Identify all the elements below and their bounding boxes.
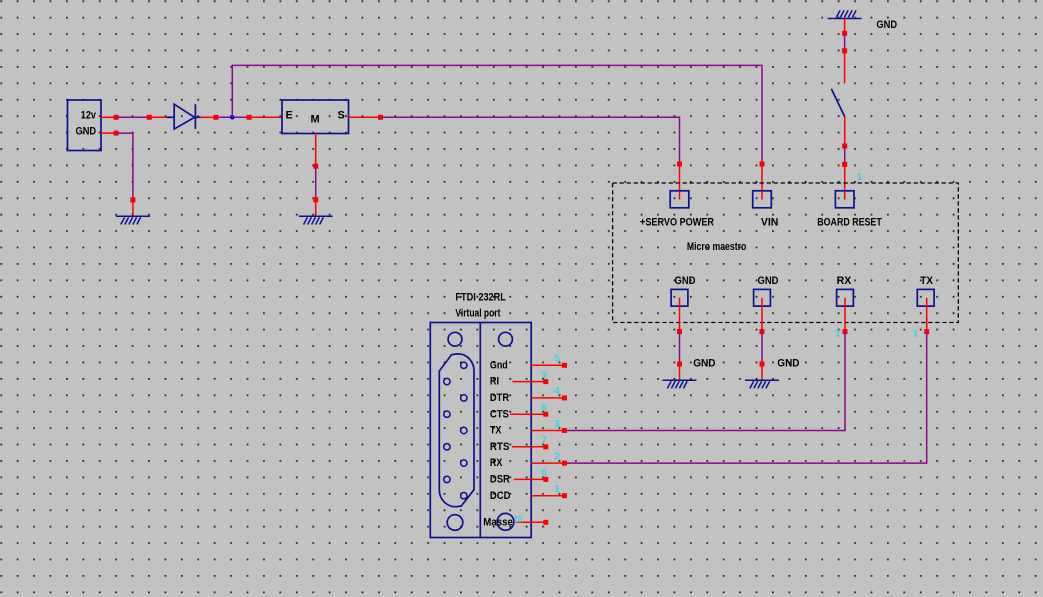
wire GND1 red lower [679, 364, 681, 380]
junction pad [842, 162, 847, 167]
wire maestro TX to FTDI RX purple [565, 332, 927, 464]
wire into BOARD RESET terminal red [844, 164, 846, 199]
junction pad [313, 164, 318, 169]
svg-text:1: 1 [835, 327, 841, 339]
junction pad [543, 520, 548, 525]
ground maestro 2 [745, 380, 779, 388]
wire reset ground red [844, 19, 846, 34]
svg-text:5: 5 [554, 353, 560, 365]
junction pad [213, 115, 218, 120]
svg-text:GND: GND [758, 275, 779, 287]
diode D1 [167, 104, 201, 129]
svg-text:RTS: RTS [490, 441, 510, 453]
wire pin RTS red [512, 446, 546, 448]
wire GND2 purple [761, 332, 763, 364]
wire GND2 red lower [761, 364, 763, 380]
svg-text:GND: GND [876, 19, 897, 31]
svg-text:4: 4 [554, 385, 560, 397]
wire purple [844, 146, 846, 164]
wire 12v GND red lower [132, 200, 134, 216]
svg-text:BOARD RESET: BOARD RESET [817, 216, 882, 228]
regulator U1 E M S box [282, 100, 349, 134]
wire 12v output segment purple [116, 116, 149, 118]
svg-text:Virtual port: Virtual port [455, 308, 500, 320]
junction pad [924, 329, 929, 334]
junction pad [843, 329, 848, 334]
wire pin CTS red [510, 413, 546, 415]
svg-text:E: E [286, 110, 293, 122]
junction pad [543, 444, 548, 449]
wire reset purple [844, 33, 846, 51]
wire 12v GND purple elbow [116, 133, 133, 200]
svg-text:1: 1 [912, 327, 918, 339]
junction pad [543, 379, 548, 384]
terminal GND 1 [671, 289, 688, 306]
svg-text:10: 10 [514, 514, 522, 526]
svg-text:3: 3 [554, 418, 560, 430]
battery 12v source box [68, 100, 102, 151]
wire M ground red lower [315, 200, 317, 217]
svg-text:Micro maestro: Micro maestro [687, 241, 747, 253]
svg-text:GND: GND [675, 275, 696, 287]
junction pad [114, 131, 119, 136]
svg-text:DSR: DSR [490, 474, 510, 486]
junction pad [130, 197, 135, 202]
junction pad [562, 493, 567, 498]
ground maestro 1 [663, 380, 697, 388]
terminal TX [917, 289, 934, 306]
wire reset red to switch [844, 51, 846, 84]
wire pin DSR red [514, 478, 546, 480]
wire pin Masse red [514, 521, 546, 523]
junction pad [677, 329, 682, 334]
wire 12v output segment red [101, 116, 116, 118]
svg-text:12v: 12v [81, 110, 97, 122]
wire GND2 red [761, 298, 763, 332]
wire maestro TX red [926, 298, 928, 332]
junction pad [378, 115, 383, 120]
svg-text:7: 7 [541, 434, 547, 446]
svg-text:Masse: Masse [483, 516, 513, 528]
junction pad [842, 144, 847, 149]
svg-text:CTS: CTS [490, 408, 509, 420]
connector DB9 body [430, 323, 531, 538]
ground regulator M [299, 216, 333, 224]
junction pad [147, 115, 152, 120]
svg-text:2: 2 [554, 450, 560, 462]
wire M ground purple [315, 166, 317, 200]
wire GND1 red [679, 298, 681, 332]
junction pad [760, 362, 765, 367]
ground 12v [116, 216, 150, 224]
svg-text:DCD: DCD [490, 490, 511, 502]
module Micro maestro dashed outline [613, 183, 959, 323]
terminal RX [837, 289, 854, 306]
junction pad [313, 197, 318, 202]
svg-text:6: 6 [541, 467, 547, 479]
svg-text:+SERVO POWER: +SERVO POWER [640, 216, 714, 228]
wire pin Gnd red [531, 364, 564, 366]
svg-text:Gnd: Gnd [490, 359, 508, 371]
wire to regulator E input red [249, 116, 282, 118]
svg-text:DTR: DTR [490, 392, 509, 404]
wire switch to pad red [844, 117, 846, 146]
svg-text:1: 1 [554, 483, 560, 495]
junction pad [543, 477, 548, 482]
svg-text:1: 1 [857, 171, 863, 183]
svg-text:FTDI 232RL: FTDI 232RL [455, 291, 506, 303]
wire S output red [349, 116, 381, 118]
junction pad [562, 428, 567, 433]
wire junction purple segment [216, 116, 249, 118]
wire GND1 purple [679, 332, 681, 364]
junction pad [543, 412, 548, 417]
connector DB9 holes [444, 362, 467, 499]
svg-text:TX: TX [920, 275, 933, 287]
svg-text:GND: GND [693, 358, 715, 370]
terminal VIN [753, 191, 772, 208]
wire net VIN riser purple [232, 65, 762, 164]
wire pin DTR red [531, 397, 564, 399]
junction pad [677, 162, 682, 167]
junction pad [760, 329, 765, 334]
terminal +SERVO POWER [670, 191, 689, 208]
switch SW1 [831, 89, 844, 117]
ground top right inverted [828, 10, 862, 18]
svg-text:RX: RX [837, 275, 852, 287]
wire diode cathode to junction red [201, 116, 216, 118]
wire maestro RX red [844, 298, 846, 332]
wire pin RI red [513, 381, 546, 383]
junction pad [562, 363, 567, 368]
wire to diode anode red [149, 116, 167, 118]
terminal BOARD RESET [835, 191, 854, 208]
svg-text:TX: TX [490, 425, 502, 437]
svg-text:RX: RX [490, 457, 503, 469]
junction pad [677, 362, 682, 367]
wire into VIN terminal red [761, 164, 763, 200]
svg-text:GND: GND [777, 358, 799, 370]
wire pin DCD red [531, 495, 564, 497]
wire into +SERVO POWER terminal red [679, 164, 681, 200]
wire 12v GND red [101, 132, 116, 134]
wire maestro RX to FTDI TX purple [565, 332, 846, 431]
wire regulator M ground red [315, 134, 317, 167]
junction pad [562, 395, 567, 400]
svg-text:M: M [311, 114, 320, 126]
svg-text:VIN: VIN [761, 216, 779, 228]
svg-text:9: 9 [541, 369, 547, 381]
wire S to +SERVO POWER purple [381, 117, 680, 164]
junction pad [247, 115, 252, 120]
junction pad [562, 461, 567, 466]
wire pin RX red [531, 462, 564, 464]
terminal GND 2 [754, 289, 771, 306]
wire pin TX red [531, 430, 564, 432]
svg-text:RI: RI [490, 376, 499, 388]
node junction dot [230, 115, 235, 120]
svg-text:8: 8 [541, 402, 547, 414]
svg-text:S: S [338, 110, 345, 122]
junction pad [842, 31, 847, 36]
junction pad [842, 48, 847, 53]
svg-text:GND: GND [76, 125, 97, 137]
junction pad [114, 115, 119, 120]
junction pad [760, 162, 765, 167]
